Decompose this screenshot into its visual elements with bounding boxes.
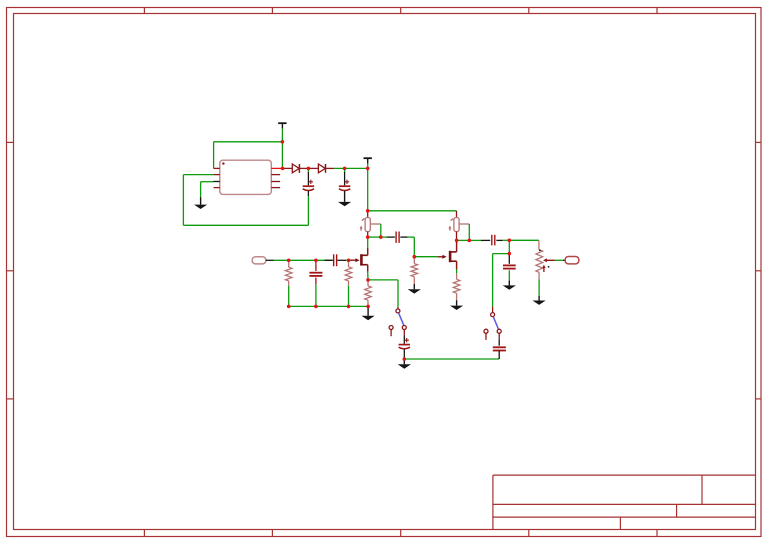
capacitor C8 [493, 347, 506, 350]
resistor R2 lead [348, 260, 350, 267]
potentiometer P1 [536, 250, 543, 273]
capacitor C1 lead [307, 168, 309, 185]
capacitor C1 (polarized) [303, 180, 314, 191]
ground G6 [450, 300, 463, 310]
wire interstage supply [368, 210, 457, 212]
switch SW2 throw A [497, 329, 501, 333]
wire to D2 [308, 167, 318, 169]
U1 pin 6 [271, 181, 280, 183]
capacitor C5 (series) [396, 232, 399, 243]
switch SW1 stub [397, 307, 399, 309]
transistor Q2 [450, 251, 457, 262]
trimmer TR1 wiper [370, 224, 381, 237]
ground G4 [398, 359, 411, 369]
capacitor C6 lower lead [403, 349, 405, 359]
wire TR2 to C7 [457, 239, 481, 241]
capacitor C7 lead left [481, 239, 490, 241]
resistor R4 lead [456, 273, 458, 279]
capacitor C6 (polarized) [399, 338, 410, 349]
node junction gate2 [413, 255, 417, 259]
supply rail T2 [364, 158, 372, 163]
switch SW1 throw B [389, 326, 393, 337]
wire C2p to V2 [345, 167, 368, 169]
transistor Q1 gate arrow [355, 258, 359, 262]
capacitor C9 lower lead [508, 270, 510, 280]
capacitor C7 lead right [496, 239, 509, 241]
wire V2 down [367, 168, 369, 210]
capacitor C4 (series) [334, 254, 337, 266]
node junction SW1 gnd [403, 357, 407, 361]
resistor R1 lower lead [288, 281, 290, 307]
capacitor C1 lower lead [307, 191, 309, 226]
wire D1-D2 node [300, 167, 309, 169]
resistor R3 lead [413, 257, 415, 264]
capacitor C8 lead [498, 333, 500, 345]
wire Q2 drain [456, 240, 458, 252]
wire loop bottom [183, 224, 308, 226]
capacitor C2 lead [344, 168, 346, 185]
switch SW1 lever [399, 313, 404, 325]
wire input [274, 259, 333, 261]
node junction TR1 bot [366, 235, 370, 239]
capacitor C3 [309, 273, 322, 276]
resistor R1 [285, 267, 292, 281]
node junction C2p [343, 167, 347, 171]
node rail 3 [347, 305, 351, 309]
wire SW1-SW2 link [404, 358, 499, 360]
node junction C3 top [314, 259, 318, 263]
node junction R1 top [287, 259, 291, 263]
supply rail T1 [278, 123, 286, 128]
wire Q1 source [367, 265, 369, 280]
node rail 2 [314, 305, 318, 309]
U1 pin 4 [214, 187, 220, 189]
potentiometer P1 adjust arrow [539, 250, 550, 273]
node junction TR2 wiper [468, 239, 472, 243]
trimmer TR2 lead top [456, 211, 458, 218]
resistor R5 lower lead [367, 300, 369, 306]
node junction D-in [281, 167, 285, 171]
wire U1 pin3 to gnd [201, 182, 214, 197]
resistor R2 [345, 267, 352, 281]
capacitor C4 lead right [337, 259, 348, 261]
trimmer TR1 [360, 218, 371, 232]
node junction out1 [508, 239, 512, 243]
resistor R4 [453, 279, 460, 293]
wire source1 to SW1 [368, 280, 398, 307]
capacitor C3 lead [315, 260, 317, 271]
wire feedback top [214, 142, 283, 169]
ground G3 [362, 306, 375, 320]
switch SW1 pole [396, 309, 400, 313]
connector OUT [565, 257, 579, 264]
ground G7 [503, 281, 516, 290]
ground G5 [408, 284, 421, 294]
diode D2 [318, 164, 325, 173]
switch SW2 throw B [484, 329, 488, 340]
node junction C1p [307, 167, 311, 171]
node junction TR1 wiper [379, 235, 383, 239]
capacitor C2 (polarized) [339, 180, 350, 191]
trimmer TR2 lead bottom [456, 232, 458, 241]
switch SW2 lever [493, 317, 498, 329]
wire Q1 drain [367, 237, 369, 255]
resistor R3 lower lead [413, 277, 415, 284]
OUT pin [563, 259, 565, 261]
wire to OUT [555, 259, 563, 261]
node rail 1 [287, 305, 291, 309]
node junction V2 [366, 167, 370, 171]
trimmer TR2 wiper [459, 224, 469, 240]
wire T2 stub [367, 163, 369, 168]
wire out top [509, 239, 539, 241]
capacitor C5 lead right [400, 236, 414, 238]
IN pin [266, 259, 274, 261]
switch SW1 throw A [402, 326, 406, 330]
U1 pin 5 [271, 187, 280, 189]
trimmer TR1 lead top [367, 211, 369, 218]
wire D2 out [326, 167, 345, 169]
resistor R5 lead [367, 280, 369, 286]
switch SW2 stub [492, 307, 494, 313]
node rail 4 [366, 305, 370, 309]
capacitor C9 (shunt) [503, 265, 516, 268]
ground G2 [338, 191, 351, 207]
capacitor C3 lower lead [315, 278, 317, 307]
wire C5 to gate2 [413, 237, 415, 257]
wire Q2 source [456, 261, 458, 273]
transistor Q1 gate wire [350, 259, 356, 261]
capacitor C8 lower lead [498, 351, 500, 359]
ground G1 [194, 197, 207, 209]
wire gate2 [414, 256, 437, 258]
U1 pin 7 [271, 174, 280, 176]
resistor R1 lead [288, 260, 290, 267]
node junction gate1 [347, 259, 351, 263]
transistor Q1 [361, 254, 367, 265]
resistor R4 lower lead [456, 293, 458, 300]
title block [493, 475, 756, 529]
wire tap to SW2 [493, 254, 510, 307]
capacitor C5 lead left [387, 236, 395, 238]
capacitor C6 lead [403, 330, 405, 344]
connector IN [252, 257, 266, 264]
wire to D1 [283, 167, 292, 169]
potentiometer P1 wiper [543, 258, 555, 262]
transistor Q2 gate arrow [442, 255, 446, 259]
trimmer TR2 [448, 218, 459, 232]
resistor R2 lower lead [348, 281, 350, 307]
U1 pin 3 [213, 181, 220, 183]
node junction source1 [366, 278, 370, 282]
node junction tap [508, 252, 512, 256]
U1 pin 1 [214, 167, 220, 169]
potentiometer P1 lead top [538, 240, 540, 249]
U1 pin 2 [214, 174, 220, 176]
ground G8 [533, 296, 546, 305]
switch SW2 pole [491, 313, 495, 317]
resistor R5 [365, 286, 372, 300]
diode D1 [292, 164, 299, 173]
wire T1 to node [281, 128, 283, 141]
U1 pin 8 [271, 167, 281, 169]
potentiometer P1 lead bottom [538, 272, 540, 295]
node junction TR1 top [366, 209, 370, 213]
node junction V1 [281, 140, 285, 144]
node junction TR2 bot [455, 239, 459, 243]
trimmer TR1 lead bottom [367, 232, 369, 238]
wire TR1 to C5 [368, 236, 387, 238]
capacitor C4 lead left [325, 259, 333, 261]
wire ground rail [289, 305, 368, 307]
wire V1 to diode row [281, 142, 283, 169]
op-amp U1 box [220, 160, 271, 194]
capacitor C7 (series) [492, 235, 495, 246]
transistor Q2 gate wire [438, 256, 443, 258]
wire out tap [508, 240, 510, 253]
wire U1 pin2 loop [183, 175, 213, 226]
capacitor C9 lead [508, 254, 510, 264]
resistor R3 [411, 264, 418, 277]
